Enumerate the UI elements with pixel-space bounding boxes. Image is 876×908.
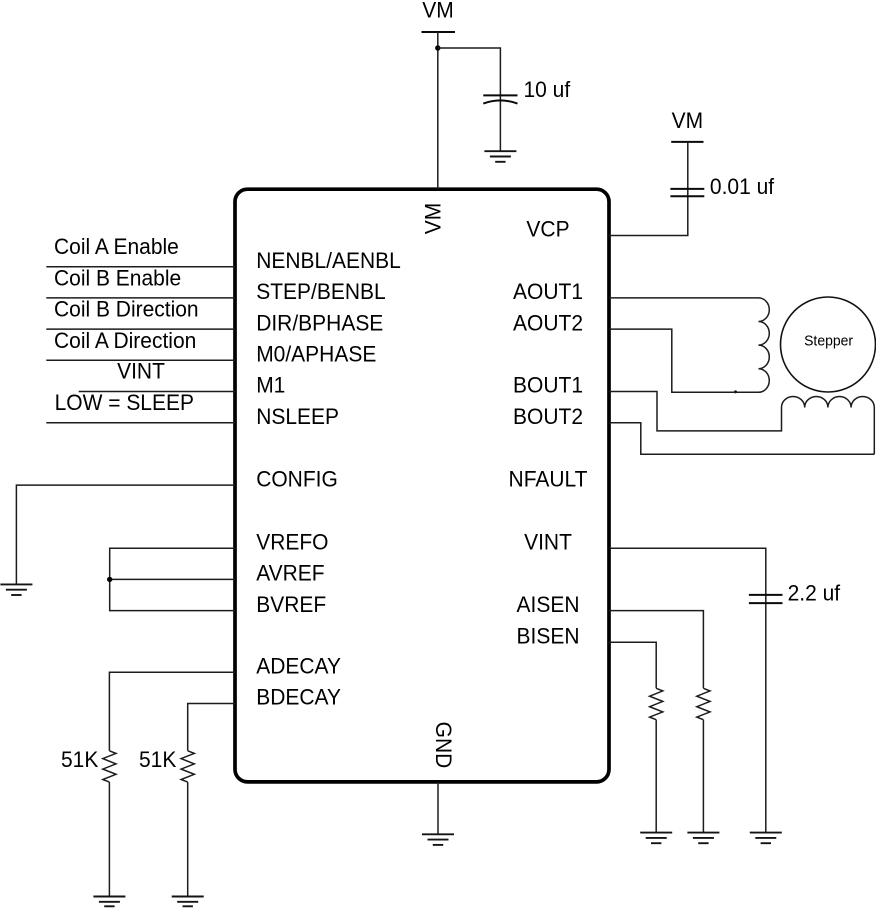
wire VM to C2 to VCP xyxy=(609,142,688,236)
pin label GND rotated xyxy=(431,722,456,769)
svg-text:VCP: VCP xyxy=(526,217,569,242)
wire ADECAY to R1 xyxy=(109,672,235,751)
node label Coil A Direction xyxy=(54,328,196,353)
svg-text:0.01 uf: 0.01 uf xyxy=(710,174,775,199)
inductor L2 coil B xyxy=(782,396,875,407)
junction VM branch xyxy=(435,45,440,50)
svg-text:Coil A Direction: Coil A Direction xyxy=(54,328,196,353)
pin label DIR/BPHASE xyxy=(256,311,383,336)
wire coil B right end down xyxy=(873,408,875,455)
ground for R4 xyxy=(640,833,672,844)
wire VM branch to C1 xyxy=(438,48,501,95)
stepper motor M1 circle xyxy=(781,297,876,392)
value label 51K left xyxy=(61,748,99,773)
svg-text:BOUT2: BOUT2 xyxy=(513,404,583,429)
svg-text:GND: GND xyxy=(431,722,456,769)
wire GND pin to ground xyxy=(437,782,439,834)
node label VINT left xyxy=(117,359,165,384)
wire R2 to ground xyxy=(187,782,189,896)
ground for R1 xyxy=(93,897,125,907)
ground for GND pin xyxy=(422,834,454,845)
value label 51K right xyxy=(139,748,177,773)
wire VINT to C3 to ground xyxy=(609,548,766,832)
svg-text:DIR/BPHASE: DIR/BPHASE xyxy=(256,311,383,336)
wire Coil B Direction to DIR xyxy=(46,328,235,330)
wire R4 to ground xyxy=(655,720,657,833)
resistor R3 AISEN sense xyxy=(697,688,710,719)
svg-text:BDECAY: BDECAY xyxy=(256,685,341,710)
junction AVREF xyxy=(107,577,112,582)
junction coil A bottom xyxy=(734,390,737,393)
resistor R4 BISEN sense xyxy=(650,688,663,719)
wire BDECAY to R2 xyxy=(188,704,235,751)
svg-text:Coil B Enable: Coil B Enable xyxy=(54,266,181,291)
pin label BDECAY xyxy=(256,685,341,710)
wire BOUT2 to coil B xyxy=(609,423,874,455)
svg-text:2.2 uf: 2.2 uf xyxy=(788,581,841,606)
pin label BISEN xyxy=(517,624,580,649)
wire C1 bottom to ground xyxy=(499,96,501,151)
svg-text:CONFIG: CONFIG xyxy=(256,467,338,492)
svg-text:BVREF: BVREF xyxy=(256,592,326,617)
pin label M0/APHASE xyxy=(256,342,376,367)
svg-text:ADECAY: ADECAY xyxy=(256,654,341,679)
wire AISEN to R3 xyxy=(609,611,703,689)
wire VINT to M1 xyxy=(79,391,235,393)
node label LOW = SLEEP xyxy=(55,390,194,415)
svg-text:VM: VM xyxy=(672,109,703,134)
label Stepper xyxy=(804,333,853,349)
node VM right label xyxy=(672,109,703,134)
wire AOUT2 to coil A xyxy=(609,329,759,392)
svg-text:BOUT1: BOUT1 xyxy=(513,373,583,398)
svg-text:AVREF: AVREF xyxy=(256,561,324,586)
svg-text:AOUT1: AOUT1 xyxy=(513,280,583,305)
svg-text:AOUT2: AOUT2 xyxy=(513,311,583,336)
svg-text:51K: 51K xyxy=(61,748,99,773)
node label Coil A Enable xyxy=(54,235,179,260)
pin label ADECAY xyxy=(256,654,341,679)
resistor R2 51K xyxy=(181,751,194,782)
value label 10 uf xyxy=(524,78,572,103)
power rail VM right bar xyxy=(671,141,703,143)
svg-text:NSLEEP: NSLEEP xyxy=(256,404,339,429)
pin label BOUT2 xyxy=(513,404,583,429)
wire BOUT1 to coil B xyxy=(609,392,782,431)
pin label VREFO xyxy=(256,530,328,555)
wire R3 to ground xyxy=(702,720,704,833)
inductor L1 coil A xyxy=(759,298,770,392)
wire Coil A Enable to NENBL xyxy=(46,266,235,268)
pin label BVREF xyxy=(256,592,326,617)
svg-text:VREFO: VREFO xyxy=(256,530,328,555)
svg-text:Coil A Enable: Coil A Enable xyxy=(54,235,179,260)
wire Coil A Direction to M0 xyxy=(46,359,235,361)
capacitor C3 2.2 uf xyxy=(749,595,783,603)
power rail VM top bar xyxy=(422,31,456,33)
ground for R2 xyxy=(172,897,204,907)
svg-text:VM: VM xyxy=(421,203,446,234)
wire AOUT1 to coil A xyxy=(609,297,759,299)
svg-text:NENBL/AENBL: NENBL/AENBL xyxy=(256,248,401,273)
svg-text:AISEN: AISEN xyxy=(517,592,580,617)
ground for C3 xyxy=(750,833,782,844)
svg-text:LOW = SLEEP: LOW = SLEEP xyxy=(55,390,194,415)
wire R1 to ground xyxy=(108,782,110,896)
pin label M1 xyxy=(256,373,285,398)
node label Coil B Direction xyxy=(54,297,199,322)
wire CONFIG to ground xyxy=(16,485,235,584)
svg-text:Stepper: Stepper xyxy=(804,333,853,349)
pin label AOUT1 xyxy=(513,280,583,305)
svg-text:STEP/BENBL: STEP/BENBL xyxy=(256,280,385,305)
pin label AVREF xyxy=(256,561,324,586)
pin label NFAULT xyxy=(509,467,588,492)
svg-text:VINT: VINT xyxy=(524,530,572,555)
node VM top label xyxy=(422,0,453,23)
node label Coil B Enable xyxy=(54,266,181,291)
pin label AOUT2 xyxy=(513,311,583,336)
svg-text:NFAULT: NFAULT xyxy=(509,467,588,492)
pin label AISEN xyxy=(517,592,580,617)
wire Coil B Enable to STEP xyxy=(46,297,235,299)
IC U1 stepper motor driver xyxy=(235,189,609,782)
wire VM rail to pin VM xyxy=(437,32,439,189)
svg-text:VINT: VINT xyxy=(117,359,165,384)
svg-text:BISEN: BISEN xyxy=(517,624,580,649)
pin label BOUT1 xyxy=(513,373,583,398)
capacitor C1 10 uf xyxy=(483,95,517,103)
pin label VCP xyxy=(526,217,569,242)
pin label NENBL/AENBL xyxy=(256,248,401,273)
svg-text:M0/APHASE: M0/APHASE xyxy=(256,342,376,367)
resistor R1 51K xyxy=(103,751,116,782)
ground for C1 xyxy=(484,151,516,162)
svg-text:M1: M1 xyxy=(256,373,285,398)
svg-text:VM: VM xyxy=(422,0,453,23)
wire AVREF xyxy=(110,578,235,580)
wire VREFO tie xyxy=(110,548,235,610)
value label 2.2 uf xyxy=(788,581,841,606)
ground for R3 xyxy=(687,833,719,844)
value label 0.01 uf xyxy=(710,174,775,199)
pin label STEP/BENBL xyxy=(256,280,385,305)
wire BISEN to R4 xyxy=(609,642,656,688)
pin label CONFIG xyxy=(256,467,338,492)
capacitor C2 0.01 uf xyxy=(670,189,704,196)
svg-text:51K: 51K xyxy=(139,748,177,773)
svg-text:10 uf: 10 uf xyxy=(524,78,572,103)
ground for CONFIG xyxy=(0,584,32,595)
pin label VINT xyxy=(524,530,572,555)
wire LOW = SLEEP to NSLEEP xyxy=(46,422,235,424)
pin label NSLEEP xyxy=(256,404,339,429)
pin label VM rotated xyxy=(421,203,446,234)
svg-text:Coil B Direction: Coil B Direction xyxy=(54,297,199,322)
